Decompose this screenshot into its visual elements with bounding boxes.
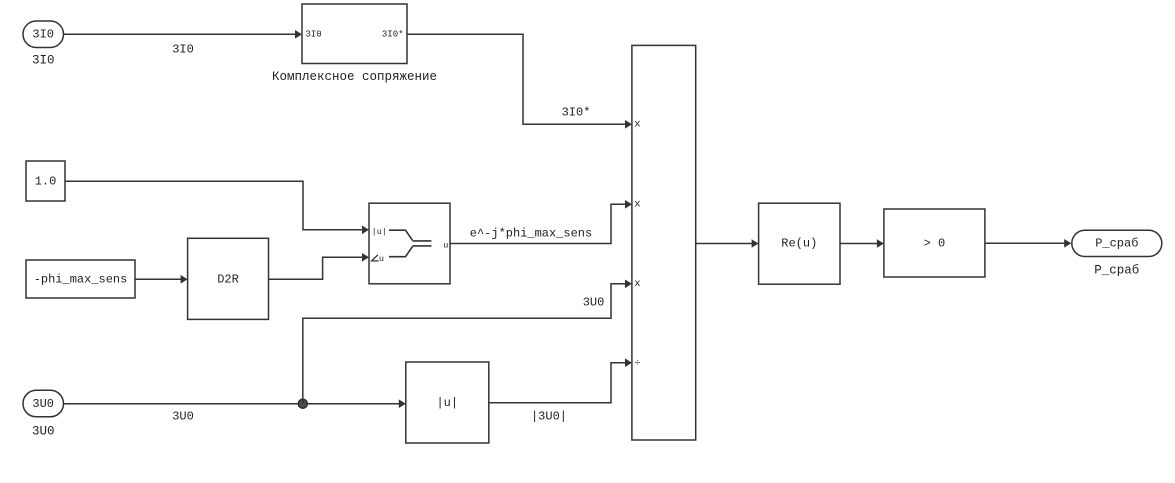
- svg-text:Комплексное сопряжение: Комплексное сопряжение: [272, 70, 437, 84]
- svg-text:D2R: D2R: [217, 272, 239, 286]
- angle port symbol and u: [372, 254, 384, 264]
- svg-text:1.0: 1.0: [35, 174, 57, 188]
- block Комплексное сопряжение: [302, 4, 407, 64]
- svg-text:|u|: |u|: [372, 227, 387, 237]
- wire 3U0 to abs block: [64, 399, 406, 408]
- product block: [632, 45, 696, 440]
- svg-text:> 0: > 0: [924, 236, 946, 250]
- svg-text:x: x: [634, 278, 640, 290]
- wire 1.0 to magnitude input: [65, 181, 369, 234]
- wire Re(u) to compare block: [840, 239, 884, 248]
- svg-text:e^-j*phi_max_sens: e^-j*phi_max_sens: [470, 227, 592, 241]
- svg-text:3I0*: 3I0*: [562, 106, 591, 120]
- input port 3U0: [23, 390, 64, 417]
- compare block > 0: [884, 209, 985, 277]
- abs block |u|: [406, 362, 489, 443]
- magnitude-angle block icon: [389, 230, 431, 257]
- wire abs to product divide input: [489, 358, 632, 402]
- svg-text:3I0: 3I0: [32, 54, 55, 68]
- junction dot: [298, 399, 307, 408]
- gain block D2R: [188, 238, 269, 319]
- svg-text:u: u: [443, 241, 448, 251]
- wire product output to Re(u): [696, 239, 759, 248]
- magnitude-angle to complex block: [369, 203, 450, 284]
- svg-text:-phi_max_sens: -phi_max_sens: [34, 272, 128, 286]
- wire compare to output port: [985, 239, 1071, 248]
- svg-text:3I0: 3I0: [172, 43, 194, 57]
- svg-text:3U0: 3U0: [32, 397, 54, 411]
- wire junction branch to product input 3: [303, 280, 632, 404]
- svg-text:Р_сраб: Р_сраб: [1095, 237, 1138, 251]
- wire 3I0 input to conjugate block: [64, 30, 303, 39]
- svg-text:3U0: 3U0: [32, 425, 55, 439]
- wire conjugate output to product input 1: [407, 34, 632, 128]
- svg-text:|3U0|: |3U0|: [531, 410, 567, 424]
- svg-text:3I0: 3I0: [306, 30, 322, 40]
- svg-text:3U0: 3U0: [583, 296, 605, 310]
- block Re(u): [759, 203, 840, 284]
- svg-text:3U0: 3U0: [172, 410, 194, 424]
- svg-text:u: u: [379, 254, 384, 264]
- constant block 1.0: [26, 161, 65, 201]
- svg-text:Р_сраб: Р_сраб: [1094, 264, 1139, 278]
- svg-text:x: x: [634, 119, 640, 131]
- svg-text:|u|: |u|: [436, 396, 458, 410]
- svg-text:3I0*: 3I0*: [382, 30, 404, 40]
- svg-text:3I0: 3I0: [32, 28, 54, 42]
- wire D2R to angle input: [269, 253, 370, 279]
- svg-text:x: x: [634, 198, 640, 210]
- output port Р_сраб: [1072, 230, 1162, 256]
- svg-text:÷: ÷: [634, 358, 640, 370]
- svg-text:Re(u): Re(u): [781, 237, 817, 251]
- input port 3I0: [23, 21, 64, 48]
- wire magnitude-angle u to product input 2: [450, 200, 632, 244]
- wire -phi_max_sens to D2R: [135, 275, 188, 284]
- constant block -phi_max_sens: [26, 260, 135, 298]
